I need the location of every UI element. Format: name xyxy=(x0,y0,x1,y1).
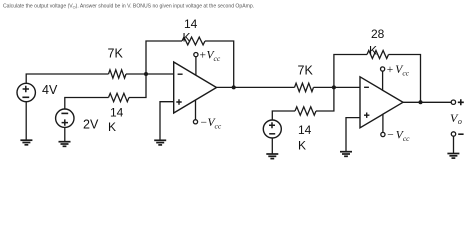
svg-text:Calculate the output voltage (: Calculate the output voltage (VO). Answe… xyxy=(3,4,254,10)
wire R5 to node B vertical xyxy=(316,87,334,111)
wire U1 output xyxy=(217,86,295,88)
wire R2 to node A vertical xyxy=(129,74,146,98)
svg-text:K: K xyxy=(369,43,377,57)
wire output - to ground xyxy=(453,136,455,153)
op-amp U2 xyxy=(360,77,403,128)
wire U1 -Vcc stub xyxy=(195,100,197,120)
terminal +Vcc U2 xyxy=(381,67,385,71)
label - (output) xyxy=(458,133,463,135)
wire U1 +input to ground xyxy=(160,102,174,140)
svg-text:14: 14 xyxy=(110,106,124,120)
ground (2V) xyxy=(59,142,71,147)
junction dot feedback1/output xyxy=(232,85,236,89)
voltage source (unlabeled) xyxy=(263,120,281,138)
wire source top to R5 xyxy=(272,111,295,120)
wire feedback2 right vertical xyxy=(389,55,421,103)
ground (4V) xyxy=(20,140,32,145)
resistor R5 14K xyxy=(295,107,316,115)
svg-text:K: K xyxy=(298,139,306,153)
terminal -Vcc U2 xyxy=(381,132,385,136)
wire 4V bottom to ground xyxy=(25,102,27,140)
wire U2 output xyxy=(403,101,451,103)
node B junction dot xyxy=(332,85,336,89)
voltage source 4V xyxy=(17,83,35,101)
terminal output + xyxy=(451,100,455,104)
wire U2 -Vcc stub xyxy=(382,114,384,132)
wire U2 +input to ground xyxy=(346,118,360,152)
wire source bottom to ground xyxy=(271,138,273,154)
svg-text:K: K xyxy=(108,120,116,134)
op-amp U1 xyxy=(174,62,217,113)
svg-text:K: K xyxy=(183,30,191,44)
resistor R4 7K xyxy=(295,83,314,91)
wire feedback left vertical xyxy=(146,41,182,74)
wire U1 +Vcc stub xyxy=(195,57,197,76)
resistor R3 14K feedback xyxy=(182,37,205,45)
svg-text:4V: 4V xyxy=(42,83,58,97)
resistor R1 7K xyxy=(109,70,127,78)
wire U2 +Vcc stub xyxy=(382,71,384,90)
resistor R2 14K xyxy=(109,93,130,101)
terminal +Vcc U1 xyxy=(194,53,198,57)
resistor R6 28K feedback xyxy=(367,51,389,59)
wire R4 to node B xyxy=(314,86,361,88)
terminal output - xyxy=(451,132,455,136)
svg-text:28: 28 xyxy=(371,27,385,41)
svg-text:7K: 7K xyxy=(298,63,314,77)
wire R1 to node A xyxy=(126,73,174,75)
label + (output) xyxy=(458,99,464,105)
ground (source) xyxy=(266,154,278,159)
terminal -Vcc U1 xyxy=(193,120,197,124)
ground (output) xyxy=(447,154,459,159)
wire 2V top to R2 xyxy=(65,98,109,110)
svg-text:7K: 7K xyxy=(108,47,124,61)
wire feedback2 left vertical xyxy=(334,55,367,88)
svg-text:2V: 2V xyxy=(83,118,99,132)
node A (inverting input node, junction dot) xyxy=(144,72,148,76)
wire 2V bottom to ground xyxy=(64,127,66,141)
voltage source 2V xyxy=(56,109,74,127)
svg-text:14: 14 xyxy=(298,123,312,137)
ground (U2 + input) xyxy=(340,152,352,157)
ground (U1 + input) xyxy=(154,140,166,145)
wire 4V top to R1 xyxy=(26,74,108,83)
wire feedback right vertical xyxy=(205,41,234,87)
svg-text:14: 14 xyxy=(184,17,198,31)
junction dot feedback2/output xyxy=(419,100,423,104)
